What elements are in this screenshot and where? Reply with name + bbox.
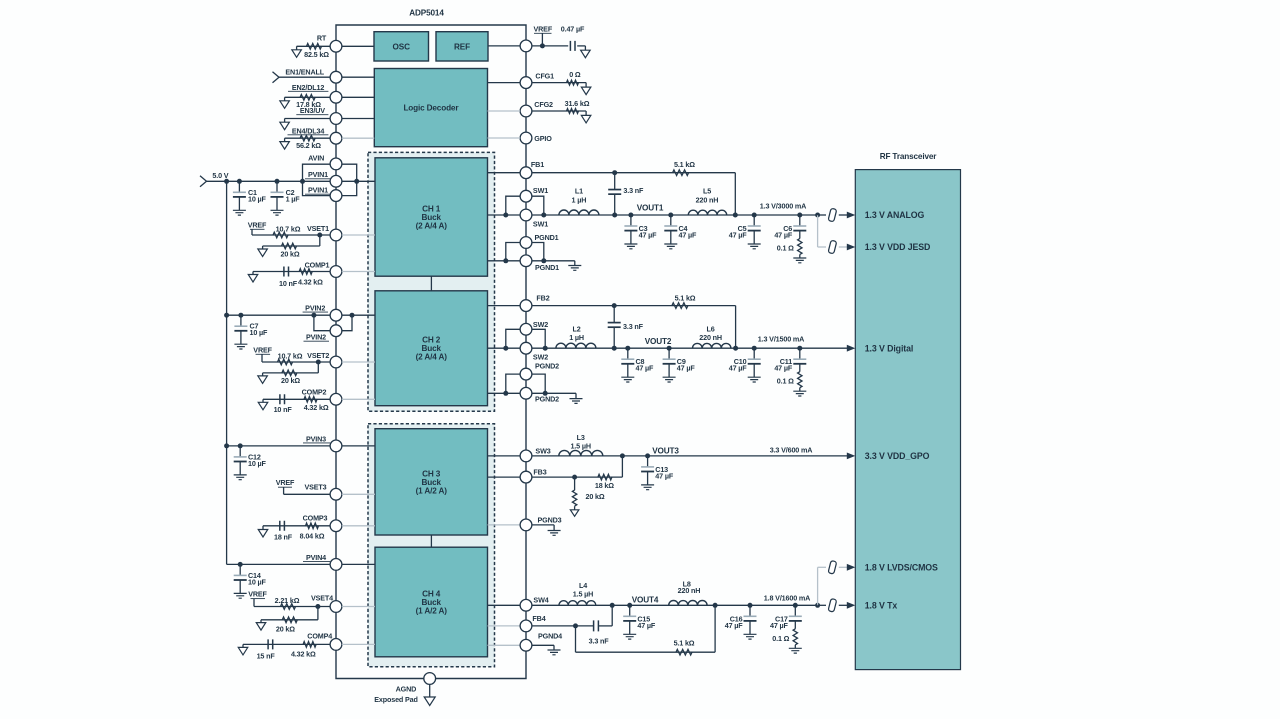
- svg-text:47 µF: 47 µF: [636, 364, 655, 373]
- resistor 18k: [598, 474, 612, 480]
- capacitor C9: [668, 348, 670, 359]
- wire PVIN4: [227, 563, 331, 565]
- wire PVIN2 bracket left: [314, 315, 330, 331]
- wire SW1 internal: [488, 214, 521, 216]
- wire EN3 internal: [342, 118, 374, 120]
- wire VREF cap to gnd: [577, 45, 585, 47]
- svg-text:1.3 V Digital: 1.3 V Digital: [865, 343, 914, 353]
- svg-text:EN3/UV: EN3/UV: [300, 106, 325, 115]
- inductor L1: [559, 210, 599, 215]
- svg-text:15 nF: 15 nF: [257, 651, 276, 660]
- node arrow 1.3V Digital: [847, 345, 856, 352]
- node CH1 branch: [815, 213, 820, 218]
- wire bead1 row: [818, 214, 826, 216]
- pin SW4: [520, 599, 532, 611]
- block OSC: [374, 32, 429, 61]
- capacitor 3.3nF CH1: [614, 173, 616, 190]
- node PVIN2 bracket left junction: [311, 313, 316, 318]
- svg-text:VREF: VREF: [248, 220, 267, 229]
- svg-text:10.7 kΩ: 10.7 kΩ: [278, 352, 303, 361]
- svg-text:VSET4: VSET4: [311, 593, 333, 602]
- wire to LVDS arrow: [839, 566, 848, 568]
- capacitor C12: [238, 443, 243, 448]
- wire EN2 internal: [342, 96, 374, 98]
- resistor 20k VSET2: [282, 370, 297, 376]
- wire EN1 internal: [342, 76, 374, 78]
- wire SW1 bracket right: [532, 196, 544, 215]
- svg-text:VOUT3: VOUT3: [652, 447, 679, 456]
- svg-text:Logic Decoder: Logic Decoder: [403, 104, 459, 113]
- wire to Tx arrow: [839, 604, 848, 606]
- svg-text:VREF: VREF: [276, 478, 295, 487]
- pin PVIN1 a: [330, 175, 342, 187]
- capacitor C1: [237, 179, 242, 184]
- block Logic Decoder: [374, 69, 487, 147]
- wire PGND1 internal: [488, 260, 521, 262]
- wire VOUT4 rail: [532, 604, 818, 606]
- inductor L8: [669, 601, 707, 606]
- pin PGND4: [520, 639, 532, 651]
- svg-text:10 µF: 10 µF: [250, 328, 269, 337]
- pin EN3: [330, 113, 342, 125]
- node VOUT1 junctions: [612, 213, 617, 218]
- inductor L3: [559, 450, 603, 456]
- svg-text:3.3 nF: 3.3 nF: [623, 186, 644, 195]
- wire REF to VREF pin: [488, 45, 520, 47]
- block CH1 Buck: [375, 158, 488, 276]
- wire COMP2 internal: [342, 398, 375, 400]
- svg-text:10 µF: 10 µF: [248, 194, 267, 203]
- node FB3 junction: [572, 475, 577, 480]
- svg-text:1 µF: 1 µF: [286, 194, 301, 203]
- svg-text:47 µF: 47 µF: [729, 364, 748, 373]
- pin COMP1: [330, 266, 342, 278]
- pin PVIN2 a: [330, 309, 342, 321]
- pin PGND2 a: [520, 368, 532, 380]
- node EN1/ENALL input: [273, 72, 280, 83]
- svg-text:1 µH: 1 µH: [572, 195, 587, 204]
- wire AGND: [429, 684, 431, 697]
- dashed group box CH3/CH4: [368, 424, 495, 667]
- capacitor 3.3nF CH2: [613, 306, 615, 323]
- svg-text:SW4: SW4: [533, 596, 548, 605]
- svg-text:PGND4: PGND4: [538, 632, 562, 641]
- pin FB4: [520, 620, 532, 632]
- node SW1 bracket junction: [541, 213, 546, 218]
- svg-text:VSET2: VSET2: [307, 351, 329, 360]
- svg-text:FB3: FB3: [533, 468, 546, 477]
- wire CFG1 internal: [488, 82, 521, 84]
- pin GPIO: [520, 132, 532, 144]
- svg-text:8.04 kΩ: 8.04 kΩ: [300, 532, 325, 541]
- svg-text:PVIN1: PVIN1: [308, 170, 328, 179]
- svg-text:10 µF: 10 µF: [248, 459, 267, 468]
- svg-text:CFG2: CFG2: [534, 100, 553, 109]
- node arrow 1.8V LVDS/CMOS: [847, 564, 856, 571]
- svg-text:RF Transceiver: RF Transceiver: [880, 152, 938, 161]
- ground FB3: [570, 510, 579, 517]
- node PVIN2 rail junction: [224, 313, 229, 318]
- wire FB4 internal: [488, 625, 521, 627]
- svg-text:3.3 V/600 mA: 3.3 V/600 mA: [770, 446, 813, 455]
- inductor L5: [688, 210, 726, 215]
- svg-text:VREF: VREF: [534, 24, 553, 33]
- wire CFG2 internal: [488, 110, 521, 112]
- svg-text:20 kΩ: 20 kΩ: [281, 376, 300, 385]
- svg-text:L5: L5: [703, 187, 711, 196]
- capacitor C6 with 0.1 Ohm: [797, 213, 802, 218]
- wire PGND3 to ground: [532, 524, 554, 526]
- ground PGND4: [548, 650, 561, 655]
- wire COMP1: [253, 271, 330, 273]
- capacitor C10: [752, 346, 757, 351]
- svg-text:PVIN2: PVIN2: [305, 304, 325, 313]
- node FB4 junction: [573, 623, 578, 628]
- resistor 4.32k COMP4: [303, 642, 316, 648]
- wire PGND1 bracket left: [506, 243, 520, 261]
- svg-text:3.3 nF: 3.3 nF: [623, 322, 644, 331]
- svg-text:5.1 kΩ: 5.1 kΩ: [675, 293, 696, 302]
- node FB2 cap tap: [612, 303, 617, 308]
- node VOUT2 junctions: [612, 346, 617, 351]
- svg-text:VOUT4: VOUT4: [632, 596, 659, 605]
- svg-text:COMP4: COMP4: [307, 632, 332, 641]
- capacitor C14: [238, 562, 243, 567]
- inductor L4: [559, 601, 596, 606]
- pin PVIN2 b: [330, 325, 342, 337]
- svg-text:4.32 kΩ: 4.32 kΩ: [298, 278, 323, 287]
- block CH2 Buck: [375, 291, 488, 406]
- pin VSET2: [330, 356, 342, 368]
- svg-text:220 nH: 220 nH: [678, 586, 701, 595]
- resistor 2.21k VSET4: [281, 604, 296, 610]
- svg-text:47 µF: 47 µF: [637, 621, 656, 630]
- svg-text:3.3 V VDD_GPO: 3.3 V VDD_GPO: [865, 451, 930, 461]
- block RF Transceiver: [855, 170, 960, 670]
- svg-text:OSC: OSC: [393, 42, 411, 51]
- ferrite bead LVDS: [828, 560, 837, 574]
- capacitor 0.47uF: [570, 41, 575, 51]
- svg-text:47 µF: 47 µF: [725, 621, 744, 630]
- svg-text:RT: RT: [317, 34, 327, 43]
- svg-text:18 nF: 18 nF: [274, 533, 293, 542]
- wire FB3 line: [532, 476, 623, 478]
- wire FB2 internal: [488, 305, 521, 307]
- block CH4 Buck: [375, 547, 488, 657]
- pin VSET3: [330, 488, 342, 500]
- svg-text:20 kΩ: 20 kΩ: [585, 492, 604, 501]
- wire to jesd arrow: [839, 246, 848, 248]
- ground VSET4: [256, 623, 266, 631]
- svg-text:1.5 µH: 1.5 µH: [570, 441, 590, 450]
- svg-text:VSET3: VSET3: [304, 483, 326, 492]
- pin PVIN3: [330, 440, 342, 452]
- capacitor C11 with 0.1 Ohm: [797, 346, 802, 351]
- svg-text:82.5 kΩ: 82.5 kΩ: [304, 50, 329, 59]
- svg-text:EN2/DL12: EN2/DL12: [292, 83, 325, 92]
- pin SW3: [520, 450, 532, 462]
- wire COMP4: [243, 643, 330, 645]
- pin SW2 b: [520, 342, 532, 354]
- wire COMP3: [263, 525, 330, 527]
- wire 20k VSET2: [317, 362, 319, 373]
- node VSET2 junction: [316, 360, 321, 365]
- svg-text:L1: L1: [575, 187, 583, 196]
- svg-text:PVIN4: PVIN4: [306, 553, 326, 562]
- pin COMP2: [330, 393, 342, 405]
- wire CFG2: [532, 110, 586, 112]
- wire PGND3 internal: [488, 524, 521, 526]
- wire PGND4 to ground: [532, 644, 554, 646]
- svg-text:COMP3: COMP3: [303, 513, 328, 522]
- svg-text:SW3: SW3: [535, 447, 550, 456]
- svg-text:10 nF: 10 nF: [279, 279, 298, 288]
- wire COMP3 internal: [342, 525, 375, 527]
- resistor 4.32k COMP2: [304, 397, 317, 403]
- wire FB4 line: [532, 625, 594, 627]
- resistor 10.7k VSET2: [278, 359, 293, 365]
- pin PVIN1 b: [330, 190, 342, 202]
- pin SW2 a: [520, 323, 532, 335]
- svg-text:ADP5014: ADP5014: [409, 8, 444, 17]
- wire GPIO internal: [488, 137, 521, 139]
- svg-text:PGND2: PGND2: [535, 361, 559, 370]
- node rail junction: [224, 179, 229, 184]
- node CH4 branch: [815, 603, 820, 608]
- wire SW4 internal: [488, 604, 521, 606]
- svg-text:PGND3: PGND3: [537, 515, 561, 524]
- ground PGND2: [570, 399, 583, 404]
- capacitor C17 with 0.1 Ohm: [793, 603, 798, 608]
- capacitor 10nF COMP2: [280, 394, 285, 404]
- svg-text:GPIO: GPIO: [534, 134, 552, 143]
- wire to analog arrow: [839, 214, 848, 216]
- wire link CH1-CH2: [430, 276, 432, 291]
- resistor 0 Ohm: [567, 80, 579, 85]
- svg-text:Exposed Pad: Exposed Pad: [374, 695, 418, 704]
- svg-text:220 nH: 220 nH: [696, 195, 719, 204]
- wire COMP4 internal: [342, 643, 375, 645]
- wire left vertical rail: [226, 181, 228, 564]
- pin PGND1 b: [520, 255, 532, 267]
- wire COMP2: [263, 398, 330, 400]
- wire CFG1: [532, 82, 586, 84]
- wire FB4 cap to rail: [598, 625, 612, 627]
- pin VREF: [520, 40, 532, 52]
- pin PGND2 b: [520, 387, 532, 399]
- wire PVIN3: [227, 445, 331, 447]
- node arrow 1.3V ANALOG: [847, 212, 856, 219]
- ground VSET2: [258, 376, 268, 384]
- wire VSET4: [254, 606, 330, 608]
- wire bead LVDS row: [818, 566, 826, 568]
- svg-text:L4: L4: [579, 581, 587, 590]
- svg-text:5.1 kΩ: 5.1 kΩ: [674, 160, 695, 169]
- pin CFG1: [520, 77, 532, 89]
- svg-text:1.3 V/1500 mA: 1.3 V/1500 mA: [758, 335, 804, 344]
- svg-text:0.1 Ω: 0.1 Ω: [777, 244, 794, 253]
- pin FB1: [520, 167, 532, 179]
- ferrite bead CH1 jesd: [828, 240, 837, 254]
- wire OSC to RT: [342, 45, 374, 47]
- wire EN2: [285, 96, 331, 98]
- resistor 20k VSET4: [282, 617, 297, 623]
- svg-text:0.1 Ω: 0.1 Ω: [777, 377, 794, 386]
- svg-text:47 µF: 47 µF: [729, 230, 748, 239]
- wire EN3: [285, 118, 331, 120]
- svg-text:(2 A/4 A): (2 A/4 A): [416, 221, 448, 230]
- pin AVIN: [330, 158, 342, 170]
- svg-text:(2 A/4 A): (2 A/4 A): [416, 353, 448, 362]
- svg-text:1.3 V/3000 mA: 1.3 V/3000 mA: [760, 202, 806, 211]
- capacitor C8: [627, 348, 629, 359]
- wire FB1 line: [532, 172, 735, 174]
- svg-text:47 µF: 47 µF: [679, 230, 698, 239]
- svg-text:1.3 V ANALOG: 1.3 V ANALOG: [865, 210, 925, 220]
- svg-text:10.7 kΩ: 10.7 kΩ: [276, 225, 301, 234]
- ground COMP3: [262, 526, 264, 530]
- svg-text:0.47 µF: 0.47 µF: [561, 24, 585, 33]
- wire SW2 bracket left: [506, 329, 520, 348]
- pin RT: [330, 40, 342, 52]
- node loop junctions: [300, 179, 305, 184]
- svg-text:47 µF: 47 µF: [655, 471, 674, 480]
- wire VSET2: [262, 361, 330, 363]
- capacitor C13: [647, 456, 649, 467]
- wire VSET2 internal: [342, 361, 375, 363]
- svg-text:PGND1: PGND1: [534, 233, 558, 242]
- ground VREF: [581, 50, 591, 58]
- pin EN1: [330, 71, 342, 83]
- capacitor C15: [629, 605, 631, 616]
- wire VSET1 internal: [342, 234, 375, 236]
- resistor 17.8k: [300, 95, 315, 101]
- svg-text:47 µF: 47 µF: [774, 230, 793, 239]
- dashed group box CH1/CH2: [368, 152, 495, 411]
- svg-text:56.2 kΩ: 56.2 kΩ: [296, 141, 321, 150]
- svg-text:FB4: FB4: [532, 614, 545, 623]
- resistor 56.2k: [300, 135, 315, 141]
- svg-text:4.32 kΩ: 4.32 kΩ: [304, 403, 329, 412]
- resistor 5.1k CH4: [676, 649, 692, 655]
- wire SW1 bracket left: [506, 196, 520, 215]
- pin SW1 a: [520, 190, 532, 202]
- pin AGND: [424, 673, 436, 685]
- wire VSET3 internal: [342, 493, 375, 495]
- wire PGND2 bracket left: [506, 374, 520, 393]
- node arrow 1.3V VDD JESD: [847, 244, 856, 251]
- wire 20k VSET1: [319, 235, 321, 246]
- wire PGND4 internal: [488, 644, 521, 646]
- node FB1 cap tap: [612, 170, 617, 175]
- ferrite bead CH1 analog: [828, 208, 837, 222]
- pin CFG2: [520, 105, 532, 117]
- wire EN4 internal: [342, 137, 374, 139]
- svg-text:AGND: AGND: [396, 684, 417, 693]
- node arrow 3.3V VDD_GPO: [847, 453, 856, 460]
- wire RT: [297, 45, 331, 47]
- svg-text:2.21 kΩ: 2.21 kΩ: [275, 596, 300, 605]
- svg-text:1.8 V/1600 mA: 1.8 V/1600 mA: [764, 593, 810, 602]
- capacitor C5: [752, 213, 757, 218]
- node PVIN2 bracket right junction: [350, 313, 355, 318]
- svg-text:PVIN2: PVIN2: [306, 333, 326, 342]
- inductor L6: [693, 343, 731, 348]
- svg-text:47 µF: 47 µF: [677, 364, 696, 373]
- svg-text:18 kΩ: 18 kΩ: [595, 481, 614, 490]
- wire FB2 line: [532, 305, 736, 307]
- svg-text:COMP1: COMP1: [305, 261, 330, 270]
- svg-text:AVIN: AVIN: [308, 153, 324, 162]
- IC ADP5014 outline: [336, 25, 526, 679]
- node PVIN3 junction: [224, 443, 229, 448]
- block REF: [436, 32, 488, 61]
- node VSET4 junction: [315, 604, 320, 609]
- pin EN2: [330, 91, 342, 103]
- wire 20k FB3 lower: [574, 506, 576, 510]
- capacitor C2: [275, 179, 280, 184]
- node PGND1 internal junction: [503, 258, 508, 263]
- wire link CH3-CH4: [430, 535, 432, 547]
- svg-text:(1 A/2 A): (1 A/2 A): [416, 486, 448, 495]
- svg-text:SW1: SW1: [533, 186, 548, 195]
- ferrite bead Tx: [828, 598, 837, 612]
- wire 5V rail: [207, 180, 303, 182]
- svg-text:47 µF: 47 µF: [639, 230, 658, 239]
- node PGND2 internal junction: [503, 391, 508, 396]
- svg-text:31.6 kΩ: 31.6 kΩ: [565, 99, 590, 108]
- resistor 10.7k VSET1: [273, 232, 288, 238]
- svg-text:0.1 Ω: 0.1 Ω: [772, 634, 789, 643]
- svg-text:REF: REF: [454, 42, 470, 51]
- wire PGND2 internal: [488, 392, 521, 394]
- pin COMP4: [330, 639, 342, 651]
- wire 20k FB3: [574, 477, 576, 490]
- svg-text:PVIN3: PVIN3: [306, 434, 326, 443]
- wire SW3 internal: [488, 455, 521, 457]
- wire FB3 internal: [488, 476, 521, 478]
- pin COMP3: [330, 520, 342, 532]
- ground CFG2: [581, 115, 591, 123]
- svg-text:10 nF: 10 nF: [274, 405, 293, 414]
- wire PVIN2 rail: [227, 314, 331, 316]
- ground EN3: [284, 119, 286, 123]
- svg-text:VSET1: VSET1: [307, 224, 329, 233]
- svg-text:PGND1: PGND1: [535, 263, 559, 272]
- ground VSET1: [258, 249, 268, 257]
- ground COMP1: [252, 272, 254, 275]
- svg-text:FB1: FB1: [531, 160, 544, 169]
- wire FB1 internal: [488, 172, 521, 174]
- svg-text:EN4/DL34: EN4/DL34: [292, 126, 325, 135]
- block CH3 Buck: [375, 429, 488, 535]
- wire EN4: [285, 137, 331, 139]
- wire PGND1 bracket right: [532, 243, 544, 261]
- svg-text:PGND2: PGND2: [535, 395, 559, 404]
- svg-text:VOUT1: VOUT1: [637, 204, 664, 213]
- svg-text:20 kΩ: 20 kΩ: [280, 249, 299, 258]
- ground COMP4: [242, 644, 244, 647]
- resistor 4.32k COMP1: [299, 269, 312, 275]
- svg-text:VREF: VREF: [248, 590, 267, 599]
- capacitor 18nF COMP3: [280, 521, 285, 531]
- capacitor 15nF COMP4: [268, 639, 273, 649]
- svg-text:1.8 V LVDS/CMOS: 1.8 V LVDS/CMOS: [865, 563, 938, 573]
- resistor 5.1k CH1: [673, 170, 689, 176]
- pin VSET1: [330, 229, 342, 241]
- svg-text:EN1/ENALL: EN1/ENALL: [285, 67, 324, 76]
- wire SW2 internal: [488, 347, 521, 349]
